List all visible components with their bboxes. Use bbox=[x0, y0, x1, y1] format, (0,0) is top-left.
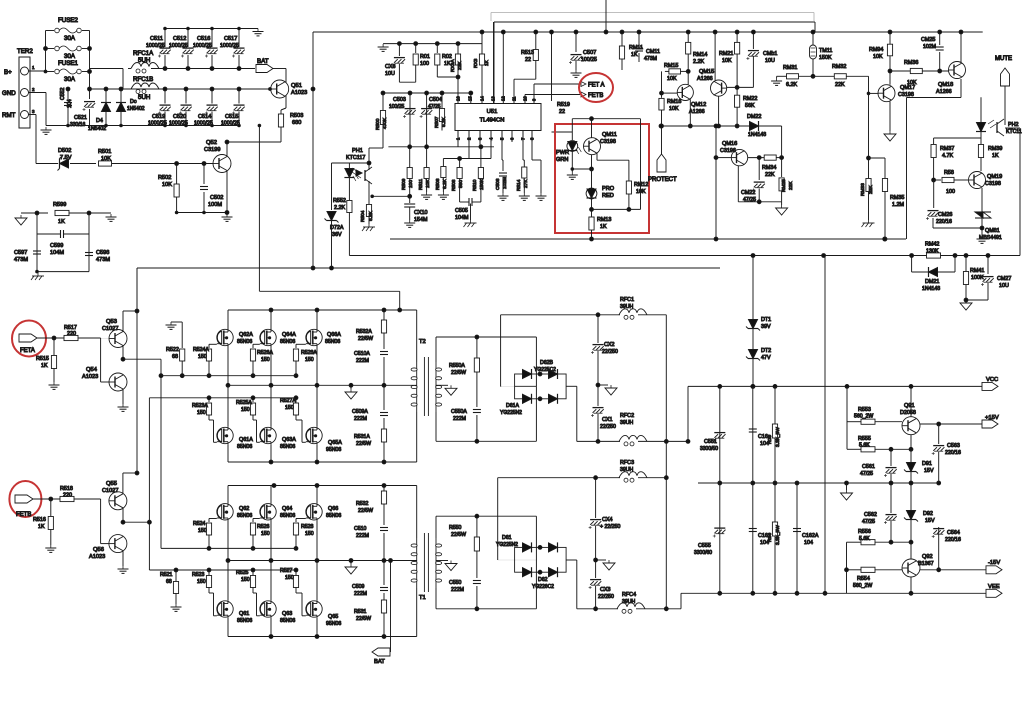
svg-text:1N5402: 1N5402 bbox=[88, 126, 106, 132]
svg-text:15V: 15V bbox=[924, 468, 934, 474]
svg-text:D2058: D2058 bbox=[900, 410, 916, 416]
svg-text:Q62: Q62 bbox=[239, 506, 249, 512]
svg-text:Q54: Q54 bbox=[86, 367, 98, 373]
svg-text:10K: 10K bbox=[722, 58, 732, 64]
svg-text:85N06: 85N06 bbox=[237, 618, 252, 624]
svg-text:14: 14 bbox=[480, 96, 485, 101]
svg-text:85N06: 85N06 bbox=[237, 339, 252, 345]
svg-text:5.6K: 5.6K bbox=[859, 536, 870, 542]
svg-text:D502: D502 bbox=[58, 148, 71, 154]
svg-text:1N4148: 1N4148 bbox=[922, 286, 940, 292]
svg-text:39UH: 39UH bbox=[620, 420, 634, 426]
svg-text:RMT: RMT bbox=[2, 112, 16, 119]
svg-text:560_2W: 560_2W bbox=[853, 583, 872, 589]
svg-text:560: 560 bbox=[458, 180, 464, 188]
svg-text:A1266: A1266 bbox=[936, 89, 952, 95]
svg-text:A1023: A1023 bbox=[82, 374, 98, 380]
svg-text:C510: C510 bbox=[354, 526, 367, 532]
svg-text:220/16: 220/16 bbox=[945, 537, 961, 543]
svg-text:150: 150 bbox=[198, 354, 207, 360]
svg-text:47V: 47V bbox=[761, 355, 771, 361]
svg-text:104M: 104M bbox=[455, 215, 469, 221]
svg-text:DM22: DM22 bbox=[747, 114, 761, 120]
svg-text:FETB: FETB bbox=[588, 93, 603, 99]
svg-text:R527: R527 bbox=[280, 568, 293, 574]
svg-text:CM11: CM11 bbox=[646, 49, 660, 55]
svg-text:R506: R506 bbox=[435, 178, 441, 190]
svg-text:C515: C515 bbox=[225, 114, 238, 120]
svg-text:T1: T1 bbox=[419, 595, 426, 601]
svg-text:R522: R522 bbox=[166, 347, 179, 353]
svg-text:C597: C597 bbox=[14, 250, 27, 256]
svg-text:22K: 22K bbox=[765, 172, 775, 178]
svg-text:DT2: DT2 bbox=[761, 348, 771, 354]
svg-text:R504: R504 bbox=[360, 210, 366, 222]
svg-text:1K: 1K bbox=[631, 52, 638, 58]
svg-text:100M: 100M bbox=[208, 202, 222, 208]
svg-text:220: 220 bbox=[63, 493, 72, 499]
svg-text:5UH: 5UH bbox=[138, 57, 150, 64]
svg-text:QM11: QM11 bbox=[602, 132, 617, 138]
svg-text:22/5W: 22/5W bbox=[451, 370, 466, 376]
svg-text:Q63: Q63 bbox=[282, 611, 292, 617]
svg-text:+15V: +15V bbox=[985, 415, 999, 421]
svg-text:C509A: C509A bbox=[352, 409, 368, 415]
svg-text:150: 150 bbox=[197, 410, 206, 416]
svg-text:470K: 470K bbox=[382, 117, 388, 129]
svg-text:D91: D91 bbox=[922, 461, 932, 467]
svg-text:Q64A: Q64A bbox=[282, 332, 296, 338]
svg-text:Q53: Q53 bbox=[106, 319, 117, 325]
svg-text:BAT: BAT bbox=[374, 659, 385, 665]
svg-text:R553: R553 bbox=[858, 407, 871, 413]
svg-text:R03: R03 bbox=[767, 435, 773, 444]
svg-text:3.3K_5W: 3.3K_5W bbox=[775, 427, 781, 447]
svg-text:RM32: RM32 bbox=[832, 64, 846, 70]
svg-text:130K: 130K bbox=[926, 249, 939, 255]
svg-text:C555: C555 bbox=[698, 543, 711, 549]
svg-text:R02: R02 bbox=[442, 54, 452, 60]
svg-text:QM18: QM18 bbox=[938, 82, 953, 88]
svg-text:RM42: RM42 bbox=[925, 242, 939, 248]
svg-text:KTC117: KTC117 bbox=[346, 155, 365, 161]
svg-text:GND: GND bbox=[2, 90, 16, 97]
svg-text:1000/25: 1000/25 bbox=[169, 43, 188, 49]
svg-text:100: 100 bbox=[408, 180, 414, 188]
svg-text:100: 100 bbox=[946, 189, 955, 195]
svg-text:C514: C514 bbox=[198, 114, 211, 120]
svg-text:150K: 150K bbox=[819, 55, 832, 61]
svg-text:150: 150 bbox=[241, 407, 250, 413]
svg-text:RM25: RM25 bbox=[781, 179, 787, 192]
svg-text:DT1: DT1 bbox=[761, 317, 771, 323]
svg-text:27K: 27K bbox=[523, 179, 529, 188]
svg-text:PH1: PH1 bbox=[352, 148, 363, 154]
svg-text:22K: 22K bbox=[868, 185, 874, 194]
svg-text:FET A: FET A bbox=[588, 83, 605, 89]
svg-text:KTC11: KTC11 bbox=[1006, 129, 1022, 135]
svg-text:RM36: RM36 bbox=[904, 60, 918, 66]
svg-text:10K: 10K bbox=[873, 54, 883, 60]
svg-text:9.2K: 9.2K bbox=[441, 116, 447, 127]
svg-text:R526: R526 bbox=[257, 524, 270, 530]
svg-text:RFC2: RFC2 bbox=[620, 413, 634, 419]
svg-text:100: 100 bbox=[420, 61, 429, 67]
svg-text:C550A: C550A bbox=[451, 409, 467, 415]
svg-text:RM12: RM12 bbox=[634, 182, 648, 188]
svg-text:104M: 104M bbox=[50, 250, 64, 256]
svg-text:85N06: 85N06 bbox=[325, 339, 340, 345]
svg-text:RM14: RM14 bbox=[693, 52, 707, 58]
svg-text:B1367: B1367 bbox=[918, 561, 934, 567]
svg-text:C599: C599 bbox=[50, 243, 63, 249]
svg-text:10K: 10K bbox=[667, 76, 677, 82]
svg-text:RFC1A: RFC1A bbox=[133, 50, 154, 57]
svg-text:C551: C551 bbox=[704, 439, 717, 445]
svg-text:C510A: C510A bbox=[354, 351, 370, 357]
svg-text:22/5W: 22/5W bbox=[358, 508, 373, 514]
svg-text:Q62A: Q62A bbox=[239, 332, 253, 338]
svg-text:330/16: 330/16 bbox=[70, 122, 86, 128]
svg-text:C3196: C3196 bbox=[720, 148, 736, 154]
svg-text:RFC1: RFC1 bbox=[620, 297, 634, 303]
svg-text:CX10: CX10 bbox=[414, 210, 428, 216]
svg-text:104: 104 bbox=[67, 99, 73, 108]
svg-text:CX2: CX2 bbox=[604, 342, 615, 348]
svg-text:Q64: Q64 bbox=[282, 506, 292, 512]
svg-text:RM16: RM16 bbox=[667, 99, 681, 105]
svg-text:CM22: CM22 bbox=[741, 190, 755, 196]
svg-text:56K: 56K bbox=[745, 103, 755, 109]
svg-text:39UH: 39UH bbox=[620, 304, 634, 310]
svg-text:C521: C521 bbox=[74, 115, 87, 121]
svg-text:R531: R531 bbox=[354, 609, 367, 615]
svg-text:1K: 1K bbox=[41, 363, 48, 369]
svg-text:30A: 30A bbox=[64, 35, 76, 42]
svg-text:TM11: TM11 bbox=[819, 48, 832, 54]
svg-text:R513: R513 bbox=[521, 50, 534, 56]
svg-text:22/5W: 22/5W bbox=[451, 532, 466, 538]
svg-text:R508: R508 bbox=[451, 179, 457, 191]
svg-text:RX3: RX3 bbox=[473, 58, 479, 68]
svg-text:RM22: RM22 bbox=[743, 96, 757, 102]
svg-text:R531A: R531A bbox=[354, 434, 370, 440]
svg-text:2.2K: 2.2K bbox=[693, 59, 704, 65]
svg-text:3.3K_5W: 3.3K_5W bbox=[775, 525, 781, 545]
svg-text:1K: 1K bbox=[600, 224, 607, 230]
svg-text:222M: 222M bbox=[354, 591, 367, 597]
svg-text:47/25: 47/25 bbox=[860, 471, 873, 477]
svg-text:GRN: GRN bbox=[556, 157, 568, 163]
svg-text:RM13: RM13 bbox=[597, 217, 611, 223]
svg-text:Q66A: Q66A bbox=[327, 332, 341, 338]
svg-text:R555: R555 bbox=[858, 436, 871, 442]
svg-text:Q52: Q52 bbox=[206, 140, 217, 146]
svg-text:68: 68 bbox=[166, 579, 172, 585]
svg-text:R525: R525 bbox=[236, 570, 249, 576]
svg-text:1N5402: 1N5402 bbox=[127, 106, 145, 112]
svg-text:R599: R599 bbox=[53, 202, 66, 208]
svg-text:85N06: 85N06 bbox=[280, 513, 295, 519]
svg-text:10K: 10K bbox=[425, 179, 431, 188]
svg-text:RX3A: RX3A bbox=[450, 59, 456, 72]
svg-text:R515: R515 bbox=[36, 356, 49, 362]
svg-text:Q56: Q56 bbox=[93, 547, 104, 553]
svg-text:A1023: A1023 bbox=[89, 554, 105, 560]
svg-text:473M: 473M bbox=[644, 56, 657, 62]
svg-text:150: 150 bbox=[198, 528, 207, 534]
svg-text:TL494CN: TL494CN bbox=[480, 118, 505, 124]
svg-text:1K: 1K bbox=[444, 61, 451, 67]
svg-text:QM16: QM16 bbox=[722, 141, 737, 147]
svg-text:102M: 102M bbox=[923, 44, 936, 50]
svg-text:222M: 222M bbox=[356, 358, 369, 364]
svg-text:R523A: R523A bbox=[192, 403, 208, 409]
svg-text:R500: R500 bbox=[375, 118, 381, 130]
svg-text:C512: C512 bbox=[173, 36, 186, 42]
svg-text:10K: 10K bbox=[907, 80, 917, 86]
svg-text:YG226C2: YG226C2 bbox=[532, 584, 554, 590]
svg-text:220/16: 220/16 bbox=[945, 450, 961, 456]
svg-text:100/25: 100/25 bbox=[581, 57, 597, 63]
svg-text:102M: 102M bbox=[502, 177, 508, 189]
svg-text:C504: C504 bbox=[429, 97, 442, 103]
svg-text:1K: 1K bbox=[38, 524, 45, 530]
svg-text:47/25: 47/25 bbox=[743, 197, 756, 203]
svg-text:RED: RED bbox=[602, 193, 614, 199]
svg-text:36V: 36V bbox=[332, 232, 342, 238]
svg-text:R532: R532 bbox=[356, 501, 369, 507]
svg-text:150: 150 bbox=[261, 531, 270, 537]
svg-text:R526A: R526A bbox=[257, 350, 273, 356]
svg-text:FUSE1: FUSE1 bbox=[58, 60, 79, 67]
svg-text:10U: 10U bbox=[385, 71, 395, 77]
svg-text:C516: C516 bbox=[197, 36, 210, 42]
svg-text:R527A: R527A bbox=[280, 398, 296, 404]
svg-text:R521: R521 bbox=[160, 572, 173, 578]
svg-text:C598: C598 bbox=[96, 250, 109, 256]
svg-text:D61A: D61A bbox=[506, 403, 520, 409]
svg-text:D62: D62 bbox=[538, 577, 548, 583]
svg-text:Q61: Q61 bbox=[239, 611, 249, 617]
svg-text:1K: 1K bbox=[58, 219, 65, 225]
svg-text:5UH: 5UH bbox=[138, 94, 150, 101]
svg-text:95N06: 95N06 bbox=[326, 447, 341, 453]
svg-text:Q65A: Q65A bbox=[328, 440, 342, 446]
svg-text:R04: R04 bbox=[767, 533, 773, 542]
svg-text:CX6: CX6 bbox=[385, 64, 396, 70]
svg-text:R511: R511 bbox=[418, 179, 424, 190]
svg-text:D72A: D72A bbox=[330, 225, 344, 231]
svg-text:39V: 39V bbox=[761, 324, 771, 330]
svg-text:1000/25: 1000/25 bbox=[221, 121, 240, 127]
svg-text:RM34: RM34 bbox=[762, 165, 776, 171]
svg-text:CX1: CX1 bbox=[602, 417, 613, 423]
svg-text:MBS4491: MBS4491 bbox=[979, 235, 1002, 241]
svg-text:560_2W: 560_2W bbox=[854, 414, 873, 420]
svg-text:1000/25: 1000/25 bbox=[148, 121, 167, 127]
svg-text:100/25: 100/25 bbox=[389, 104, 405, 110]
svg-text:7.5V: 7.5V bbox=[60, 155, 72, 161]
svg-text:U51: U51 bbox=[487, 109, 498, 115]
svg-text:85N06: 85N06 bbox=[280, 444, 295, 450]
svg-text:RM94: RM94 bbox=[869, 47, 883, 53]
svg-text:DM21: DM21 bbox=[925, 279, 939, 285]
svg-text:85N06: 85N06 bbox=[280, 618, 295, 624]
svg-text:MUTE: MUTE bbox=[995, 56, 1012, 62]
svg-text:22/5W: 22/5W bbox=[356, 616, 371, 622]
svg-text:C507: C507 bbox=[583, 50, 596, 56]
svg-text:D92: D92 bbox=[923, 511, 933, 517]
svg-text:22K: 22K bbox=[835, 82, 845, 88]
svg-text:R01: R01 bbox=[420, 54, 430, 60]
svg-text:10K: 10K bbox=[636, 189, 646, 195]
svg-text:FETB: FETB bbox=[16, 512, 31, 518]
svg-text:C3198: C3198 bbox=[985, 181, 1001, 187]
svg-text:22/250: 22/250 bbox=[600, 424, 616, 430]
svg-text:220: 220 bbox=[67, 331, 76, 337]
svg-text:150K: 150K bbox=[479, 178, 485, 190]
svg-text:39UH: 39UH bbox=[622, 599, 636, 605]
svg-text:22/5W: 22/5W bbox=[358, 336, 373, 342]
svg-text:5.6K: 5.6K bbox=[859, 443, 870, 449]
svg-text:1K: 1K bbox=[992, 153, 999, 159]
svg-text:104: 104 bbox=[804, 540, 813, 546]
svg-text:VCC: VCC bbox=[986, 377, 998, 383]
svg-text:222M: 222M bbox=[356, 533, 369, 539]
svg-text:2.2K: 2.2K bbox=[334, 205, 345, 211]
svg-text:YG225C2: YG225C2 bbox=[534, 367, 556, 373]
svg-text:11: 11 bbox=[512, 96, 517, 101]
svg-text:1N4148: 1N4148 bbox=[748, 132, 766, 138]
svg-text:D62B: D62B bbox=[540, 360, 554, 366]
svg-text:220/16: 220/16 bbox=[936, 219, 952, 225]
svg-text:85N06: 85N06 bbox=[237, 513, 252, 519]
svg-text:C509: C509 bbox=[352, 584, 365, 590]
svg-text:39UH: 39UH bbox=[620, 467, 634, 473]
svg-text:6.2K: 6.2K bbox=[442, 178, 448, 189]
svg-text:222M: 222M bbox=[354, 416, 367, 422]
svg-text:R58: R58 bbox=[944, 170, 954, 176]
svg-text:CM25: CM25 bbox=[921, 37, 935, 43]
svg-text:16: 16 bbox=[456, 96, 461, 101]
svg-text:R503: R503 bbox=[290, 113, 303, 119]
svg-text:10K: 10K bbox=[162, 182, 172, 188]
svg-text:PRO: PRO bbox=[602, 186, 615, 192]
svg-text:CX3: CX3 bbox=[600, 587, 611, 593]
svg-text:Q55: Q55 bbox=[106, 481, 117, 487]
svg-text:RM37: RM37 bbox=[940, 146, 954, 152]
svg-text:CX4: CX4 bbox=[602, 517, 613, 523]
svg-text:150: 150 bbox=[197, 579, 206, 585]
svg-text:Q65: Q65 bbox=[328, 614, 338, 620]
svg-text:RM15: RM15 bbox=[664, 63, 678, 69]
svg-text:C519: C519 bbox=[152, 114, 165, 120]
svg-text:1K: 1K bbox=[484, 59, 490, 66]
svg-text:-15V: -15V bbox=[988, 560, 1000, 566]
svg-text:C552: C552 bbox=[60, 87, 66, 100]
svg-text:R510: R510 bbox=[472, 179, 478, 191]
svg-text:222M: 222M bbox=[451, 587, 464, 593]
svg-text:22: 22 bbox=[559, 109, 565, 115]
svg-text:PH2: PH2 bbox=[1008, 122, 1019, 128]
svg-text:T2: T2 bbox=[419, 339, 426, 345]
svg-text:22K: 22K bbox=[457, 61, 463, 70]
svg-text:R507: R507 bbox=[434, 116, 440, 128]
svg-text:1000/25: 1000/25 bbox=[169, 121, 188, 127]
svg-text:TER2: TER2 bbox=[17, 48, 33, 55]
svg-text:85N06: 85N06 bbox=[237, 444, 252, 450]
svg-text:C505: C505 bbox=[455, 208, 468, 214]
svg-text:22: 22 bbox=[525, 57, 531, 63]
svg-text:R518: R518 bbox=[60, 486, 73, 492]
svg-text:R528A: R528A bbox=[301, 350, 317, 356]
svg-text:22/250: 22/250 bbox=[602, 349, 618, 355]
svg-text:95N06: 95N06 bbox=[326, 621, 341, 627]
svg-text:680: 680 bbox=[292, 120, 301, 126]
svg-text:C1027: C1027 bbox=[102, 326, 118, 332]
svg-text:CMb1: CMb1 bbox=[763, 51, 777, 57]
svg-text:R501: R501 bbox=[98, 149, 111, 155]
svg-text:YG225N2: YG225N2 bbox=[496, 542, 518, 548]
svg-text:R550: R550 bbox=[449, 525, 462, 531]
svg-text:473M: 473M bbox=[96, 257, 110, 263]
svg-text:13: 13 bbox=[491, 96, 496, 101]
svg-text:R556: R556 bbox=[858, 529, 871, 535]
svg-text:R532A: R532A bbox=[356, 329, 372, 335]
svg-text:C511: C511 bbox=[150, 36, 163, 42]
svg-text:R528: R528 bbox=[301, 524, 314, 530]
svg-text:8.2K: 8.2K bbox=[368, 210, 374, 221]
svg-text:FETA: FETA bbox=[20, 348, 35, 354]
svg-text:PWR: PWR bbox=[556, 150, 569, 156]
svg-text:47/25: 47/25 bbox=[428, 104, 441, 110]
svg-text:C502: C502 bbox=[210, 195, 223, 201]
svg-text:1000/25: 1000/25 bbox=[193, 43, 212, 49]
svg-text:C162A: C162A bbox=[802, 533, 819, 539]
svg-text:B+: B+ bbox=[4, 69, 12, 76]
svg-text:R525A: R525A bbox=[236, 400, 252, 406]
svg-text:Q61A: Q61A bbox=[239, 437, 253, 443]
svg-text:A1266: A1266 bbox=[689, 109, 705, 115]
svg-text:C520: C520 bbox=[173, 114, 186, 120]
svg-text:C562: C562 bbox=[864, 512, 877, 518]
svg-text:C561: C561 bbox=[862, 464, 875, 470]
svg-text:1000/25: 1000/25 bbox=[146, 43, 165, 49]
svg-text:+ 22/250: + 22/250 bbox=[600, 524, 620, 530]
svg-text:YG225N2: YG225N2 bbox=[500, 410, 522, 416]
svg-text:1000/25: 1000/25 bbox=[220, 43, 239, 49]
svg-text:R552: R552 bbox=[333, 198, 346, 204]
svg-text:10U: 10U bbox=[765, 58, 775, 64]
svg-text:10K: 10K bbox=[669, 106, 679, 112]
svg-text:100K: 100K bbox=[971, 275, 984, 281]
svg-text:10K: 10K bbox=[101, 156, 111, 162]
svg-text:FUSE2: FUSE2 bbox=[58, 17, 79, 24]
svg-text:3300/60: 3300/60 bbox=[694, 550, 712, 556]
svg-text:15: 15 bbox=[468, 96, 473, 101]
svg-text:RFC4: RFC4 bbox=[622, 592, 636, 598]
svg-text:Q91: Q91 bbox=[904, 403, 915, 409]
svg-text:QM12: QM12 bbox=[691, 102, 706, 108]
svg-text:QM19: QM19 bbox=[987, 174, 1002, 180]
svg-text:150: 150 bbox=[241, 577, 250, 583]
svg-text:6.2K: 6.2K bbox=[786, 82, 797, 88]
svg-text:QM15: QM15 bbox=[699, 69, 714, 75]
svg-text:RFC1B: RFC1B bbox=[133, 76, 153, 83]
svg-text:22/250: 22/250 bbox=[598, 594, 614, 600]
svg-text:3300/50: 3300/50 bbox=[700, 446, 718, 452]
